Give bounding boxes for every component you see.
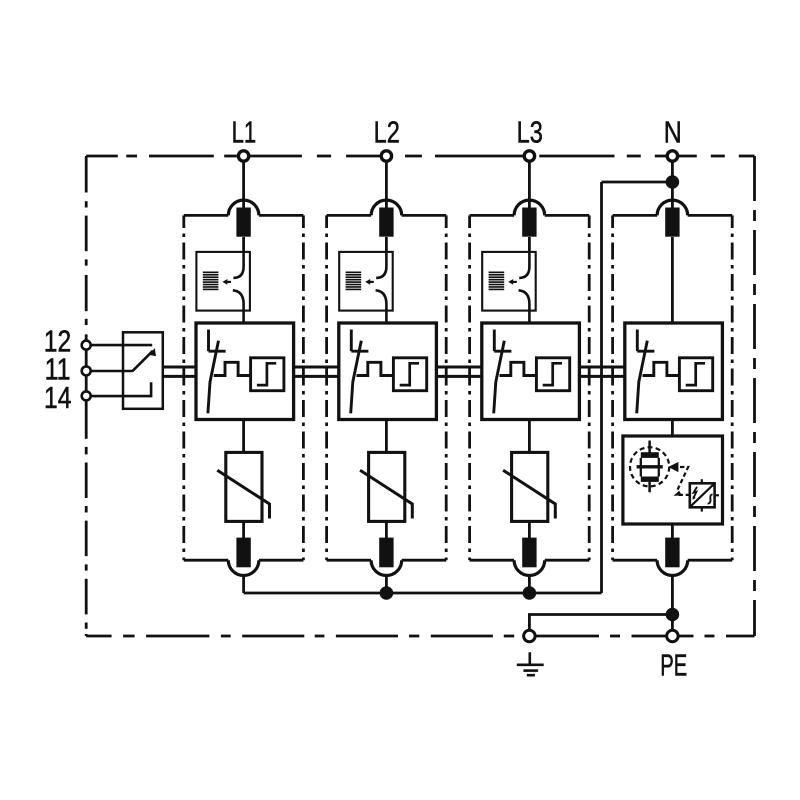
plug terminal L2 bottom (black) [379,538,393,568]
step symbol L1 [257,363,276,385]
wire L1 varistor to plug [242,521,245,538]
varistor L2 [360,452,412,521]
module box L2 top edge [327,214,447,217]
thermal disconnector box L1 [196,252,250,311]
wire L2 varistor to plug [385,521,388,538]
wire L2 varistor leg to bottom bus [385,575,388,593]
wire L2 terminal to plug [385,156,388,210]
plug arc L1 bottom [228,560,259,575]
disconnector lower contact L2 [376,290,387,323]
svg-text:L2: L2 [374,114,400,149]
module box N top edge [613,214,733,217]
plug terminal L1 top (black) [236,208,250,237]
disconnector lower contact L1 [233,290,244,323]
plug arc L1 top [228,200,259,215]
impulse waveform L3 [500,362,537,375]
wire L3 varistor to plug [528,521,531,538]
enclosure border left (dash-dot) [85,156,88,636]
wire L3 terminal to plug [528,156,531,210]
wire L1 varistor leg to bottom bus [242,575,245,593]
fuse indicator stripes L2 [346,272,362,291]
plug terminal L1 bottom (black) [236,538,250,568]
impulse box L3 [536,358,569,391]
disconnector upper contact L1 [233,252,243,278]
label L1 [232,114,257,149]
svg-text:L3: L3 [517,114,543,149]
step symbol L3 [543,363,562,385]
label N [664,114,682,149]
label L2 [374,114,400,149]
wire contact 12 [91,344,152,347]
module box L3 left edge (dash-dot) [468,215,471,560]
switch box L2 [339,323,437,420]
svg-text:L1: L1 [232,114,257,149]
indicator arrow L2 [365,279,374,285]
fuse indicator stripes L1 [203,272,219,291]
disconnector upper contact L3 [519,252,529,278]
wire PE junction to PE terminal [671,615,674,637]
module box L3 top edge [470,214,590,217]
wire L1 switch box to varistor [242,420,245,453]
module box L2 left edge (dash-dot) [325,215,328,560]
spark gap element [637,441,663,493]
module box L2 bottom edge [327,559,447,562]
label PE [660,648,687,683]
disconnector upper contact L2 [376,252,386,278]
switch box L3 [482,323,580,420]
wire N plug to switch box [671,237,674,323]
plug terminal L2 top (black) [379,208,393,237]
varistor L3 [503,452,555,521]
indicator arrow L3 [508,279,517,285]
mechanical linkage double lines [163,367,625,376]
impulse box N [679,358,712,391]
plug terminal N top (black) [665,208,679,237]
impulse waveform L1 [214,362,251,375]
trigger lightning glyph [693,487,697,500]
enclosure border bottom (dash-dot) [86,635,754,638]
impulse box L2 [393,358,426,391]
terminal circle N [667,151,677,161]
plug arc L2 bottom [371,560,402,575]
terminal circle L3 [524,151,534,161]
module box L1 right edge (dash-dot) [302,215,305,560]
wire L3 varistor leg to bottom bus [528,575,531,593]
changeover switch blade [132,348,156,371]
module box L1 top edge [184,214,304,217]
wire PE junction to earth terminal [529,615,672,637]
enclosure border right (dash-dot) [753,156,756,636]
remote contact box [123,332,163,409]
terminal circle PE [667,630,679,642]
fuse indicator stripes L3 [489,272,505,291]
wire L1 plug to thermal disconnector [242,237,245,252]
wire L2 switch box to varistor [385,420,388,453]
module box N left edge (dash-dot) [611,215,614,560]
plug arc L2 top [371,200,402,215]
module box L1 bottom edge [184,559,304,562]
enclosure border top (dash-dot) [86,155,754,158]
junction dot N top [666,175,680,189]
svg-text:14: 14 [44,380,71,415]
plug arc N top [657,200,688,215]
fixed contact N [637,330,654,352]
spark gap box N [623,436,723,524]
module box L1 left edge (dash-dot) [182,215,185,560]
disconnector lower contact L3 [519,290,530,323]
wire N branch horizontal (node N to riser) [602,181,673,184]
wire N terminal to plug [671,156,674,210]
switch blade N [637,341,648,414]
ground symbol [517,652,544,675]
thermal disconnector box L2 [339,252,393,311]
indicator arrow L1 [222,279,231,285]
terminal circle 12 [82,341,91,350]
trigger arrow (to spark gap) [668,462,689,496]
wire contact 14 [91,382,151,396]
svg-text:PE: PE [660,648,687,683]
label L3 [517,114,543,149]
plug terminal L3 top (black) [522,208,536,237]
terminal circle 11 [82,366,91,375]
trigger circuit box [690,479,719,511]
plug terminal N bottom (black) [665,538,679,568]
junction dot bottom bus at L2 [380,586,394,600]
switch blade L2 [351,341,362,414]
module box L2 right edge (dash-dot) [445,215,448,560]
switch blade L3 [494,341,505,414]
module box L3 right edge (dash-dot) [588,215,591,560]
label 12 [44,324,71,359]
module box N bottom edge [613,559,733,562]
varistor L1 [217,452,269,521]
step symbol N [686,363,705,385]
terminal circle 14 [82,391,91,400]
impulse box L1 [251,358,284,391]
wire riser vertical (N branch down to bottom bus) [600,182,603,593]
module box N right edge (dash-dot) [731,215,734,560]
svg-text:N: N [664,114,682,149]
wire N spark gap to plug [671,524,674,538]
switch box N [625,323,723,420]
plug arc N bottom [657,560,688,575]
label 14 [44,380,71,415]
plug arc L3 bottom [514,560,545,575]
spark gap dashed circle [630,447,669,486]
terminal circle L2 [381,151,391,161]
fixed contact L3 [494,330,511,352]
fixed contact L1 [209,330,226,352]
plug terminal L3 bottom (black) [522,538,536,568]
label 11 [45,351,71,386]
trigger integral glyph [708,495,713,504]
plug arc L3 top [514,200,545,215]
wire L2 plug to thermal disconnector [385,237,388,252]
junction dot bottom bus at L3 [523,586,537,600]
step symbol L2 [400,363,419,385]
impulse waveform N [643,362,680,375]
module box L3 bottom edge [470,559,590,562]
terminal circle earth [524,630,536,642]
wire N switch box to spark gap box [671,420,674,437]
impulse waveform L2 [357,362,394,375]
junction dot PE [666,608,680,622]
wire bottom bus horizontal [244,592,602,595]
wire contact 11 (common) [91,370,132,373]
fixed contact L2 [351,330,368,352]
wire N module to PE junction [671,575,674,615]
terminal circle L1 [238,151,248,161]
switch box L1 [196,323,294,420]
wire L1 terminal to plug [242,156,245,210]
thermal disconnector box L3 [482,252,536,311]
wire L3 switch box to varistor [528,420,531,453]
wire L3 plug to thermal disconnector [528,237,531,252]
switch blade L1 [208,341,219,414]
